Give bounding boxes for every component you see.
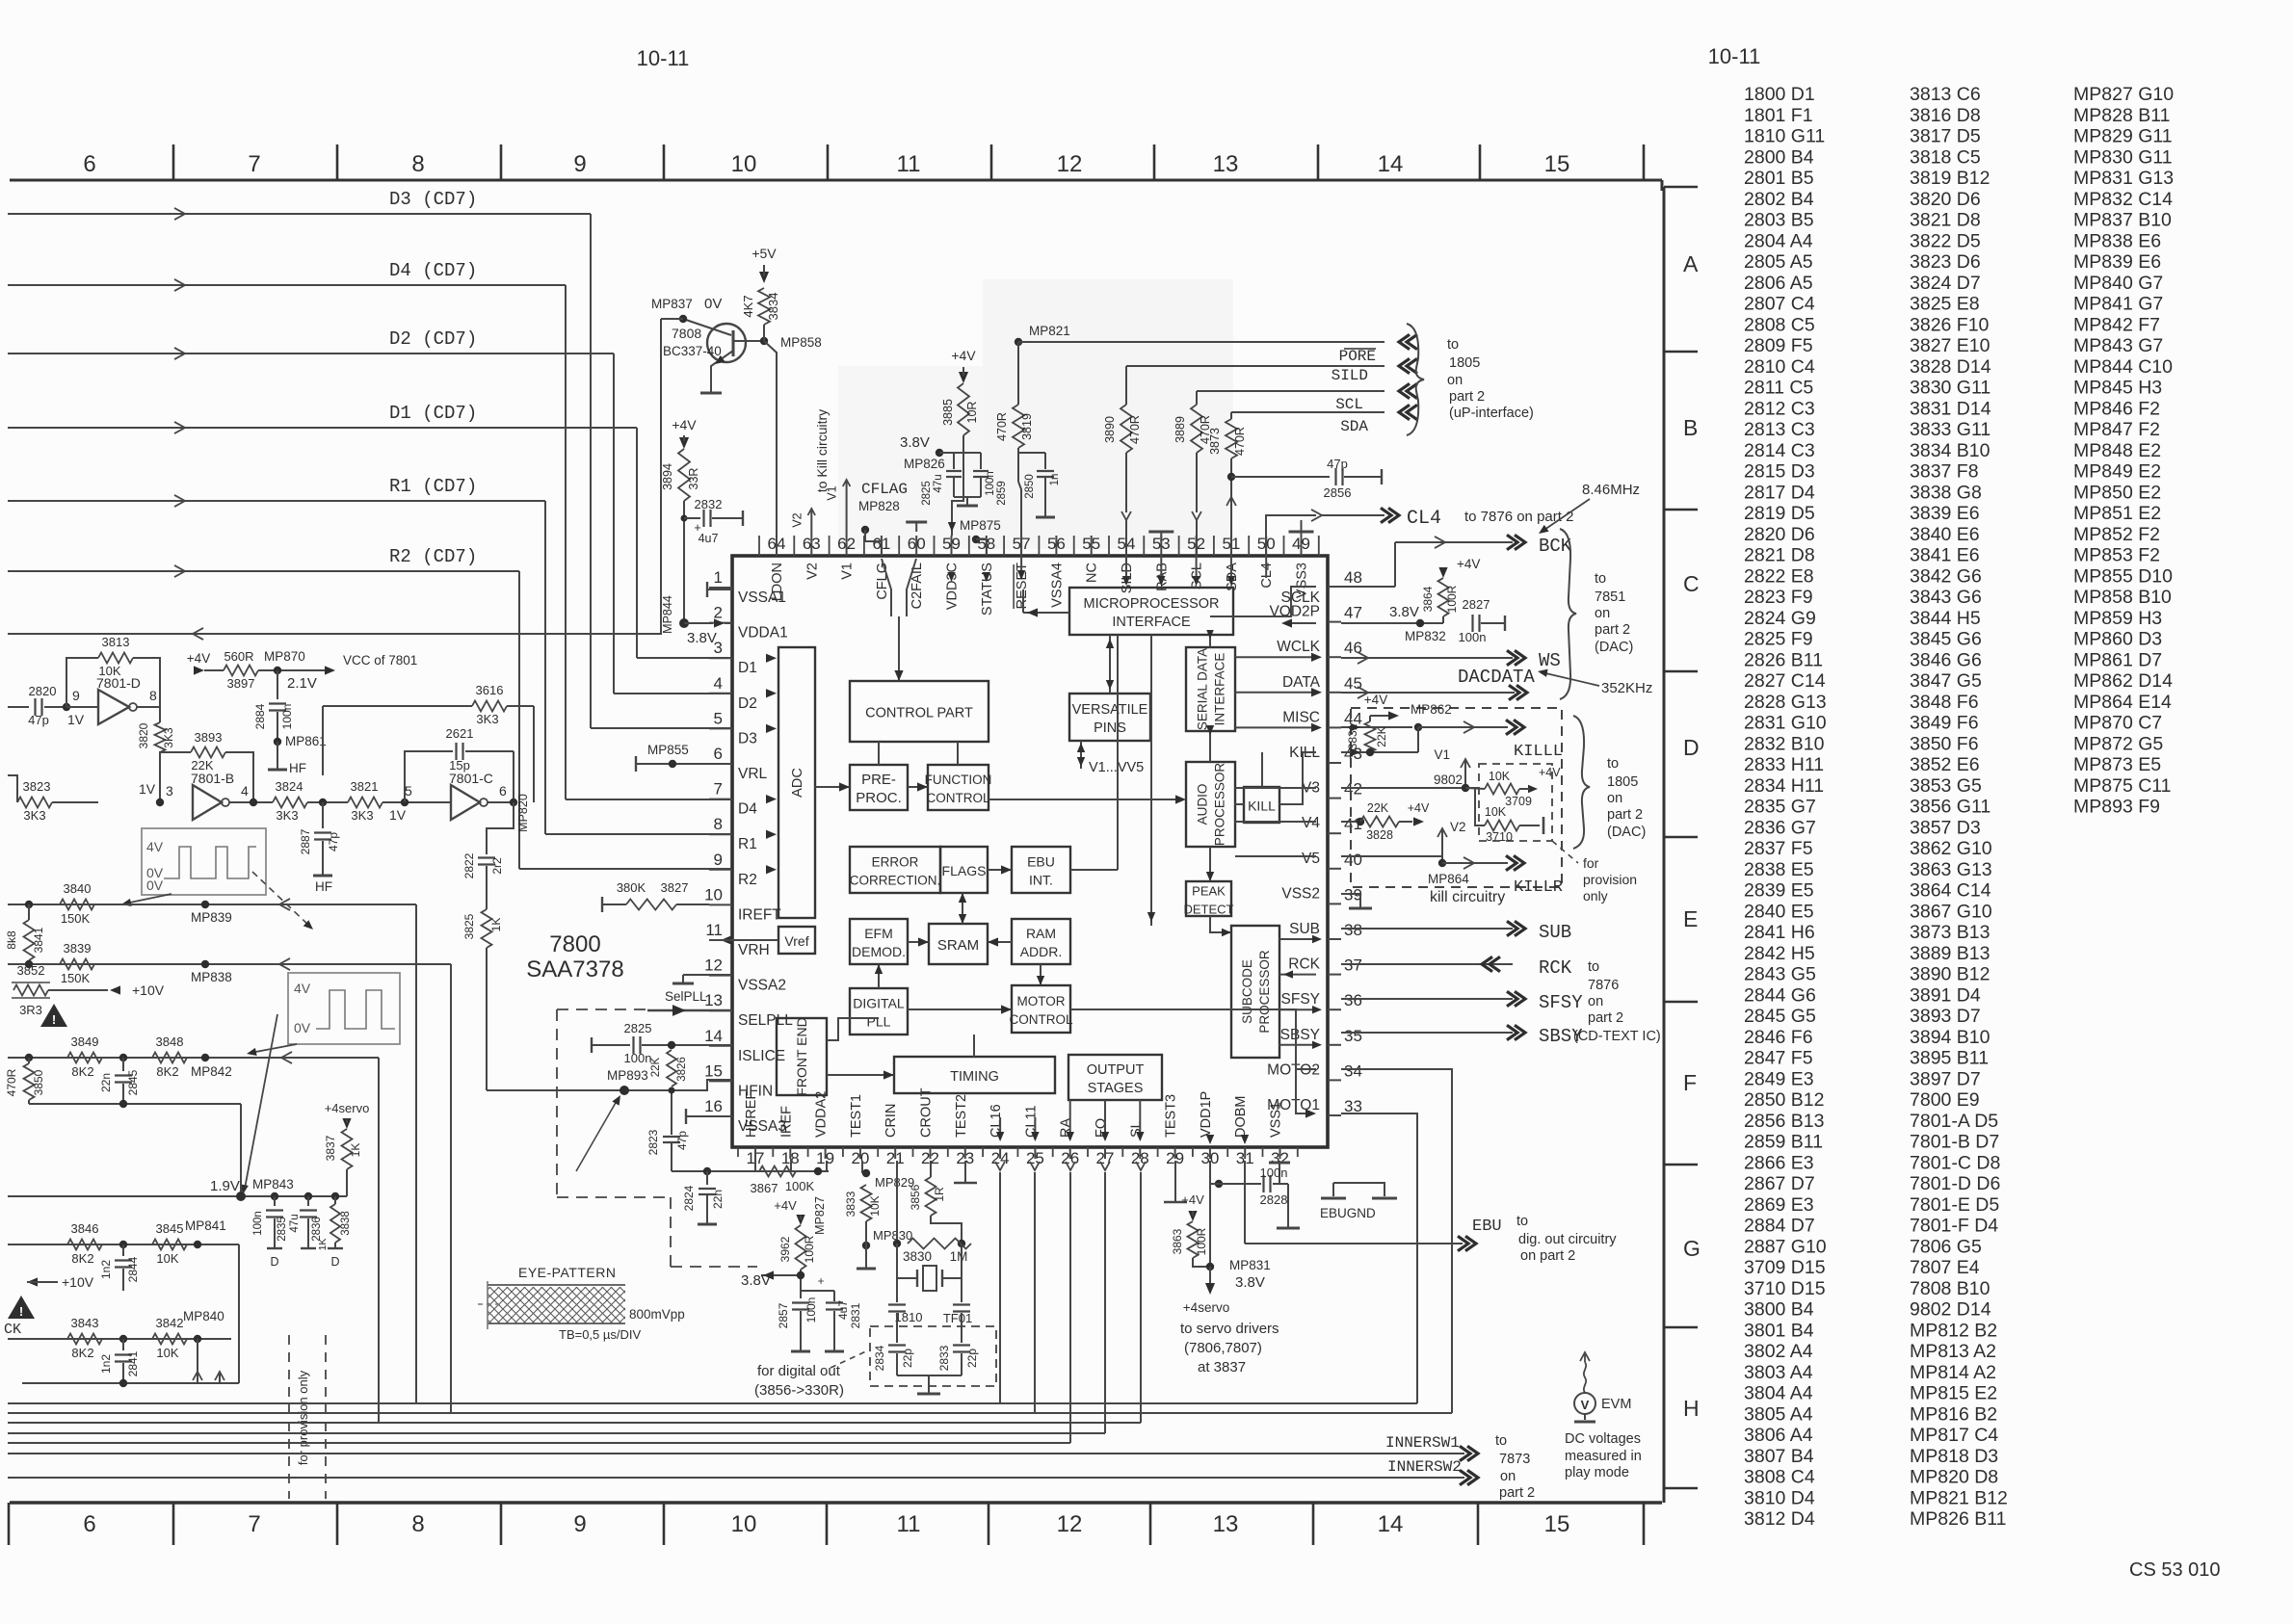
wire pointer box2 to MP843 long arrow: [245, 1014, 277, 1189]
pin 36 SFSY: [1328, 1008, 1341, 1010]
wire pin 24 CL16 down: [995, 1162, 1005, 1170]
svg-text:2859: 2859: [996, 481, 1008, 506]
node EBUGND: [1332, 1183, 1334, 1196]
svg-text:4K7: 4K7: [741, 295, 755, 317]
svg-text:1R: 1R: [933, 1187, 946, 1202]
ground bar above pin 49: [1289, 531, 1314, 534]
svg-text:DOBM: DOBM: [1233, 1096, 1249, 1139]
svg-text:9: 9: [573, 151, 586, 177]
svg-text:2869 E3: 2869 E3: [1744, 1194, 1814, 1216]
svg-text:MP816 B2: MP816 B2: [1910, 1403, 1997, 1425]
svg-text:MP818 D3: MP818 D3: [1910, 1446, 1998, 1467]
wire MP820 chain to HFIN: [486, 948, 488, 1090]
pin 35 SBSY: [1328, 1044, 1341, 1046]
svg-text:+: +: [814, 1277, 828, 1284]
svg-text:MP826: MP826: [904, 457, 945, 471]
svg-text:3800 B4: 3800 B4: [1744, 1299, 1814, 1321]
svg-text:3824: 3824: [276, 779, 303, 794]
pin 32 VSS1: [1279, 1147, 1281, 1159]
wire R1 input line: [8, 500, 545, 502]
svg-text:MP837 B10: MP837 B10: [2073, 210, 2172, 231]
pin 3 D1: [709, 657, 732, 659]
svg-text:+4V: +4V: [951, 348, 976, 363]
svg-text:3856 G11: 3856 G11: [1910, 797, 1991, 818]
svg-text:MP839: MP839: [191, 910, 232, 925]
svg-text:2825 F9: 2825 F9: [1744, 629, 1813, 650]
svg-text:3.8V: 3.8V: [900, 434, 930, 451]
wire 352KHz pointer: [1542, 672, 1599, 686]
wire SFSY output: [1341, 998, 1513, 1000]
op-amp U7801-C: [401, 799, 409, 806]
svg-text:ISLICE: ISLICE: [738, 1048, 785, 1064]
ground D for R3838: [328, 1247, 343, 1249]
svg-text:7851: 7851: [1595, 589, 1625, 605]
wire VCC of 7801 arrow: [325, 666, 335, 674]
pin 61 CFLG: [881, 536, 883, 556]
svg-text:1805: 1805: [1449, 355, 1480, 371]
svg-text:3821: 3821: [351, 779, 379, 794]
svg-text:2828: 2828: [1260, 1192, 1288, 1207]
svg-text:3833 G11: 3833 G11: [1910, 419, 1991, 440]
pin 40 V5: [1328, 868, 1341, 870]
wire V5 pin 40 KILLR line: [1341, 855, 1442, 857]
pin 11 VRH: [709, 939, 732, 941]
svg-text:100R: 100R: [1445, 585, 1459, 613]
power +4V right of R3709: [1528, 785, 1538, 793]
svg-text:3890 B12: 3890 B12: [1910, 964, 1991, 985]
wire BCK from pin 48: [1341, 542, 1395, 587]
svg-text:D1 (CD7): D1 (CD7): [389, 403, 477, 424]
svg-text:10K: 10K: [98, 664, 120, 678]
svg-text:63: 63: [803, 535, 821, 553]
svg-text:100R: 100R: [803, 1235, 816, 1263]
svg-text:3863: 3863: [1171, 1228, 1184, 1254]
svg-text:to: to: [1595, 571, 1606, 587]
svg-text:4: 4: [714, 674, 723, 693]
svg-text:B: B: [1683, 415, 1698, 440]
svg-text:MP855 D10: MP855 D10: [2073, 565, 2173, 587]
wire FLAGS-SRAM vertical: [962, 893, 963, 924]
resistor R3890 470R: [1121, 405, 1132, 453]
wire D2 input line: [8, 353, 614, 354]
wire KILL block up: [1261, 752, 1263, 787]
svg-text:11: 11: [705, 921, 723, 939]
svg-text:7801-E D5: 7801-E D5: [1910, 1194, 1999, 1216]
svg-text:MP847 F2: MP847 F2: [2073, 419, 2160, 440]
svg-text:1V: 1V: [389, 807, 407, 823]
resistor R3843 8K2: [67, 1334, 102, 1345]
svg-text:MP831: MP831: [1229, 1258, 1271, 1272]
svg-text:1n2: 1n2: [99, 1354, 113, 1374]
svg-text:100n: 100n: [252, 1211, 264, 1236]
pin 20 TEST1: [859, 1147, 861, 1159]
svg-text:3890: 3890: [1103, 416, 1117, 443]
svg-text:2832 B10: 2832 B10: [1744, 733, 1825, 754]
svg-text:MP845 H3: MP845 H3: [2073, 378, 2162, 399]
svg-text:F: F: [1683, 1070, 1697, 1095]
resistor R3819 470R: [1013, 405, 1024, 448]
svg-text:2806 A5: 2806 A5: [1744, 273, 1813, 294]
pin 31 DOBM: [1244, 1147, 1246, 1159]
ground stub pin 12 VSSA2: [683, 974, 732, 976]
pin 34 MOTO2: [1328, 1079, 1341, 1081]
svg-text:2823 F9: 2823 F9: [1744, 587, 1813, 608]
svg-text:22K: 22K: [1375, 726, 1388, 747]
svg-text:3831: 3831: [1346, 723, 1359, 749]
svg-text:CROUT: CROUT: [919, 1087, 935, 1138]
svg-text:3K3: 3K3: [476, 712, 498, 726]
resistor R3831 22K: [1365, 721, 1376, 752]
svg-text:VOD2P: VOD2P: [1269, 604, 1320, 620]
wire KILL block to pin 43: [1279, 752, 1316, 804]
svg-text:2828 G13: 2828 G13: [1744, 692, 1827, 713]
svg-text:15: 15: [1544, 151, 1570, 177]
svg-text:2825: 2825: [624, 1021, 652, 1035]
svg-text:10K: 10K: [156, 1346, 178, 1360]
svg-text:(DAC): (DAC): [1595, 640, 1633, 655]
ground stub pin 1 VSSA1: [707, 589, 732, 590]
pin 12 VSSA2: [709, 975, 732, 977]
wire MP844 to pin2 VDDA1: [684, 622, 713, 624]
pin 44 MISC: [1328, 726, 1341, 728]
wire OUTPUT STAGES down arrows: [999, 1117, 1001, 1139]
node MP844 3.8V: [679, 618, 689, 628]
svg-text:15: 15: [704, 1061, 723, 1080]
svg-text:470R: 470R: [5, 1068, 18, 1096]
svg-text:3841 E6: 3841 E6: [1910, 545, 1980, 566]
svg-text:D3 (CD7): D3 (CD7): [389, 189, 477, 210]
svg-text:3833: 3833: [844, 1191, 857, 1217]
svg-text:10K: 10K: [1485, 805, 1507, 819]
resistor R3825 1K: [482, 909, 492, 948]
svg-text:8: 8: [411, 1511, 424, 1537]
svg-text:3845: 3845: [156, 1221, 184, 1236]
svg-text:56: 56: [1047, 535, 1066, 553]
node MP875: [972, 536, 980, 543]
svg-text:to Kill circuitry: to Kill circuitry: [814, 409, 830, 492]
capacitor C2845 22n: [122, 1058, 124, 1071]
svg-text:3853 G5: 3853 G5: [1910, 775, 1982, 797]
wire 8.46MHz pointer: [1542, 499, 1590, 532]
svg-text:FRONT END: FRONT END: [794, 1017, 809, 1095]
wire WS from pin 46: [1341, 657, 1513, 659]
svg-text:26: 26: [1061, 1149, 1079, 1167]
node MP821: [1015, 338, 1022, 346]
warning triangle 2: [8, 1296, 35, 1319]
svg-text:3616: 3616: [476, 683, 504, 697]
wire PRE-PROC to FUNCTION CONTROL: [908, 786, 928, 788]
svg-text:24: 24: [991, 1149, 1010, 1167]
svg-text:2800 B4: 2800 B4: [1744, 146, 1814, 168]
pin 48 SCLK: [1328, 586, 1341, 588]
resistor R3827 380K for IREFT: [602, 904, 626, 905]
pin 42 V3: [1328, 798, 1341, 799]
svg-text:A: A: [1683, 251, 1699, 276]
capacitor C2833 22p: [953, 1344, 970, 1346]
resistor R3850 470R: [28, 1058, 30, 1063]
capacitor C2832 4u7: [681, 515, 688, 522]
wire CL4 from pin 50: [1266, 515, 1316, 556]
svg-text:8: 8: [714, 815, 723, 833]
svg-text:ERROR: ERROR: [872, 855, 919, 870]
power +5V: [759, 272, 769, 283]
wire top pin internal arrows: [947, 572, 955, 582]
svg-text:DEMOD.: DEMOD.: [852, 944, 906, 959]
svg-text:CONTROL: CONTROL: [926, 791, 989, 805]
capacitor C2850 1n: [1018, 452, 1045, 454]
svg-text:CORRECTION.: CORRECTION.: [850, 874, 941, 888]
wire +10V arrow 2: [27, 1277, 38, 1286]
svg-text:on part 2: on part 2: [1520, 1248, 1575, 1264]
ground D for C2835: [267, 1247, 282, 1249]
svg-text:MP820: MP820: [516, 794, 530, 832]
svg-text:FLAGS: FLAGS: [942, 863, 987, 878]
top border ruler line: [10, 179, 1662, 182]
capacitor C2621 15p feedback: [405, 751, 453, 802]
wire MP839 drop: [415, 904, 417, 1403]
IC U7800 SAA7378 outline: [732, 556, 1328, 1147]
svg-text:3.8V: 3.8V: [687, 630, 717, 646]
block TIMING: [894, 1057, 1055, 1093]
svg-text:+4V: +4V: [1364, 693, 1387, 707]
svg-text:MP821 B12: MP821 B12: [1910, 1487, 2008, 1508]
svg-text:TIMING: TIMING: [950, 1069, 999, 1085]
svg-text:VSSA2: VSSA2: [738, 978, 786, 994]
block FUNCTION CONTROL: [928, 765, 989, 810]
svg-text:(DAC): (DAC): [1607, 825, 1646, 840]
svg-text:at 3837: at 3837: [1198, 1359, 1246, 1375]
svg-text:470R: 470R: [1128, 415, 1142, 444]
svg-text:3821 D8: 3821 D8: [1910, 210, 1981, 231]
svg-text:WCLK: WCLK: [1277, 639, 1320, 655]
wire D1 input line: [8, 427, 637, 429]
svg-text:2844 G6: 2844 G6: [1744, 984, 1816, 1006]
svg-text:25: 25: [1026, 1149, 1044, 1167]
svg-text:3843 G6: 3843 G6: [1910, 587, 1982, 608]
svg-text:MP859 H3: MP859 H3: [2073, 608, 2162, 629]
svg-text:INNERSW1: INNERSW1: [1385, 1434, 1460, 1452]
svg-text:7873: 7873: [1499, 1452, 1530, 1467]
svg-text:SELPLL: SELPLL: [738, 1012, 793, 1029]
svg-text:MP893: MP893: [607, 1068, 648, 1083]
pin 43 KILL: [1328, 762, 1341, 764]
svg-text:3845 G6: 3845 G6: [1910, 629, 1982, 650]
svg-text:on: on: [1588, 994, 1603, 1009]
resistor R3885 10R: [958, 383, 969, 435]
pin 18 IREF: [789, 1147, 791, 1159]
svg-text:on: on: [1595, 606, 1610, 621]
svg-text:2856: 2856: [1324, 485, 1352, 500]
transistor Q7808 BC337-40: [707, 324, 746, 362]
svg-text:7801-B D7: 7801-B D7: [1910, 1132, 1999, 1153]
wire CFLG C2FAIL funnel: [882, 559, 891, 616]
svg-text:MP852 F2: MP852 F2: [2073, 524, 2160, 545]
svg-text:1M: 1M: [950, 1249, 968, 1264]
pin 47 VOD2P: [1328, 621, 1341, 623]
dashed route SELPLL box: [556, 1009, 558, 1197]
block FLAGS: [940, 847, 988, 893]
svg-text:SFSY: SFSY: [1539, 992, 1583, 1013]
wire AUDIO PROC to V3 V4 V5 pins: [1235, 787, 1316, 789]
wire AUDIO PROCESSOR to KILL block: [1235, 803, 1244, 805]
svg-text:on: on: [1500, 1469, 1516, 1484]
wire FRONT END to DIGITAL PLL: [827, 1018, 879, 1040]
svg-text:2836: 2836: [311, 1217, 323, 1242]
svg-text:V1...VV5: V1...VV5: [1089, 760, 1144, 775]
svg-text:MP864 E14: MP864 E14: [2073, 692, 2172, 713]
svg-text:TEST3: TEST3: [1164, 1094, 1179, 1138]
svg-text:3801 B4: 3801 B4: [1744, 1320, 1814, 1341]
parts list column 2: [1910, 84, 2008, 1530]
node MP861: [274, 738, 281, 746]
wire R3873 to pin 51: [1230, 458, 1232, 556]
svg-text:2826 B11: 2826 B11: [1744, 649, 1823, 670]
svg-text:100n: 100n: [624, 1051, 652, 1065]
svg-text:MP828: MP828: [858, 499, 900, 513]
svg-text:MP870: MP870: [264, 649, 305, 664]
wire MP862 down join: [1417, 727, 1419, 752]
wire SDA line: [1231, 411, 1384, 413]
svg-text:38: 38: [1344, 921, 1362, 939]
svg-text:9802: 9802: [1434, 773, 1463, 787]
node MP843 1.9V: [236, 1192, 246, 1201]
svg-text:(7806,7807): (7806,7807): [1184, 1340, 1262, 1356]
svg-text:+4V: +4V: [672, 417, 697, 432]
wire MP821 riser to pin 57: [1017, 342, 1019, 405]
resistor R3830 1M: [893, 1240, 901, 1247]
svg-text:3820 D6: 3820 D6: [1910, 189, 1981, 210]
svg-text:measured in: measured in: [1565, 1449, 1642, 1464]
wire KILLL output: [1418, 726, 1508, 728]
svg-text:2847 F5: 2847 F5: [1744, 1048, 1813, 1069]
svg-text:7806 G5: 7806 G5: [1910, 1236, 1982, 1257]
svg-text:2845 G5: 2845 G5: [1744, 1006, 1816, 1027]
svg-text:3K3: 3K3: [351, 808, 373, 823]
wire DIGITAL PLL to MOTOR CONTROL: [908, 1008, 1012, 1010]
svg-text:2833: 2833: [937, 1345, 951, 1371]
svg-text:H: H: [1683, 1396, 1700, 1421]
pin 45 DATA: [1328, 692, 1341, 694]
svg-text:3862 G10: 3862 G10: [1910, 838, 1992, 859]
svg-text:3827 E10: 3827 E10: [1910, 335, 1991, 356]
wire RESET riser to microprocessor interface: [1020, 556, 1022, 578]
svg-text:3820: 3820: [137, 722, 150, 748]
svg-text:3834: 3834: [766, 293, 780, 321]
wire CONTROL PART to PRE-PROC: [878, 742, 880, 765]
svg-text:10R: 10R: [965, 402, 979, 424]
block ADC: [778, 647, 815, 918]
svg-text:MP815 E2: MP815 E2: [1910, 1383, 1997, 1404]
wire VSS2 pin 39 ground: [1341, 893, 1360, 895]
resistor R3846 8K2: [67, 1240, 102, 1250]
svg-text:IREF: IREF: [778, 1106, 794, 1138]
svg-text:2807 C4: 2807 C4: [1744, 294, 1815, 315]
node junction C2845: [119, 1054, 127, 1061]
svg-text:VSS1: VSS1: [1269, 1102, 1284, 1138]
svg-text:+5V: +5V: [751, 246, 777, 261]
wire pin 11 VRH arrow: [721, 935, 731, 944]
wire D1 vertical to IC pin: [636, 428, 638, 658]
svg-text:7: 7: [248, 1511, 260, 1537]
svg-text:2850 B12: 2850 B12: [1744, 1089, 1825, 1111]
svg-text:3847 G5: 3847 G5: [1910, 670, 1982, 692]
svg-text:D4 (CD7): D4 (CD7): [389, 260, 477, 281]
svg-text:to servo drivers: to servo drivers: [1180, 1321, 1279, 1337]
svg-text:1n: 1n: [1049, 474, 1061, 486]
svg-text:MP842 F7: MP842 F7: [2073, 314, 2160, 335]
svg-text:3834 B10: 3834 B10: [1910, 440, 1991, 461]
svg-text:7800: 7800: [549, 931, 600, 957]
node MP831: [1206, 1263, 1214, 1270]
svg-text:3813 C6: 3813 C6: [1910, 84, 1981, 105]
svg-text:MP814 A2: MP814 A2: [1910, 1362, 1996, 1383]
svg-text:3823 D6: 3823 D6: [1910, 251, 1981, 273]
svg-text:9: 9: [573, 1511, 586, 1537]
svg-text:NC: NC: [1085, 563, 1100, 583]
block AUDIO PROCESSOR: [1186, 762, 1235, 847]
svg-text:2839 E5: 2839 E5: [1744, 880, 1814, 902]
svg-text:EBU: EBU: [1027, 854, 1055, 870]
resistor R3840 150K: [25, 901, 33, 908]
svg-text:14: 14: [704, 1027, 723, 1045]
svg-text:3.8V: 3.8V: [741, 1272, 771, 1289]
svg-text:2834: 2834: [873, 1345, 886, 1371]
svg-text:V2: V2: [790, 512, 804, 527]
resistor R3838 1K: [331, 1192, 339, 1200]
svg-text:20: 20: [851, 1149, 869, 1167]
node MP827: [814, 1167, 822, 1175]
svg-text:MP838 E6: MP838 E6: [2073, 230, 2161, 251]
wire RAM ADDR down to MOTOR CONTROL: [1040, 964, 1042, 985]
svg-text:2812 C3: 2812 C3: [1744, 398, 1815, 419]
svg-text:CONTROL PART: CONTROL PART: [865, 706, 973, 721]
pin 52 SCL: [1196, 536, 1198, 556]
svg-text:2845: 2845: [126, 1069, 140, 1095]
svg-text:CFLAG: CFLAG: [861, 481, 908, 498]
svg-text:2887 G10: 2887 G10: [1744, 1236, 1827, 1257]
svg-text:BC337-40: BC337-40: [663, 344, 722, 358]
svg-text:MP843 G7: MP843 G7: [2073, 335, 2163, 356]
svg-text:D: D: [1683, 735, 1700, 760]
svg-text:D: D: [330, 1255, 339, 1269]
wire pin 28 SL down: [1136, 1162, 1146, 1170]
svg-text:HF: HF: [315, 879, 332, 894]
wire SDI to pin 47 arrow: [1285, 622, 1316, 624]
svg-text:48: 48: [1344, 568, 1362, 587]
warning triangle 1: [40, 1004, 67, 1027]
svg-text:DETECT: DETECT: [1184, 903, 1234, 917]
svg-text:3810 D4: 3810 D4: [1744, 1487, 1815, 1508]
wire row MP841: [8, 1244, 239, 1245]
pin 13 SELPLL: [709, 1009, 732, 1011]
svg-text:3850 F6: 3850 F6: [1910, 733, 1979, 754]
svg-text:PLL: PLL: [867, 1014, 891, 1030]
wire MP837 down to 3.8V rail: [8, 319, 661, 634]
svg-text:7: 7: [714, 780, 723, 799]
svg-text:3893 D7: 3893 D7: [1910, 1006, 1981, 1027]
svg-text:2811 C5: 2811 C5: [1744, 378, 1813, 399]
svg-text:3857 D3: 3857 D3: [1910, 817, 1981, 838]
svg-text:MP813 A2: MP813 A2: [1910, 1341, 1996, 1362]
svg-text:3843: 3843: [71, 1316, 99, 1330]
svg-text:V1: V1: [826, 485, 839, 500]
ground bar above pin 53: [1148, 531, 1173, 534]
capacitor C2836 47u: [304, 1192, 312, 1200]
wire DIGITAL PLL up to EFM: [878, 964, 880, 988]
block MICROPROCESSOR INTERFACE: [1069, 588, 1233, 635]
ground for C2828: [1287, 1184, 1289, 1219]
node MP858: [760, 337, 768, 345]
